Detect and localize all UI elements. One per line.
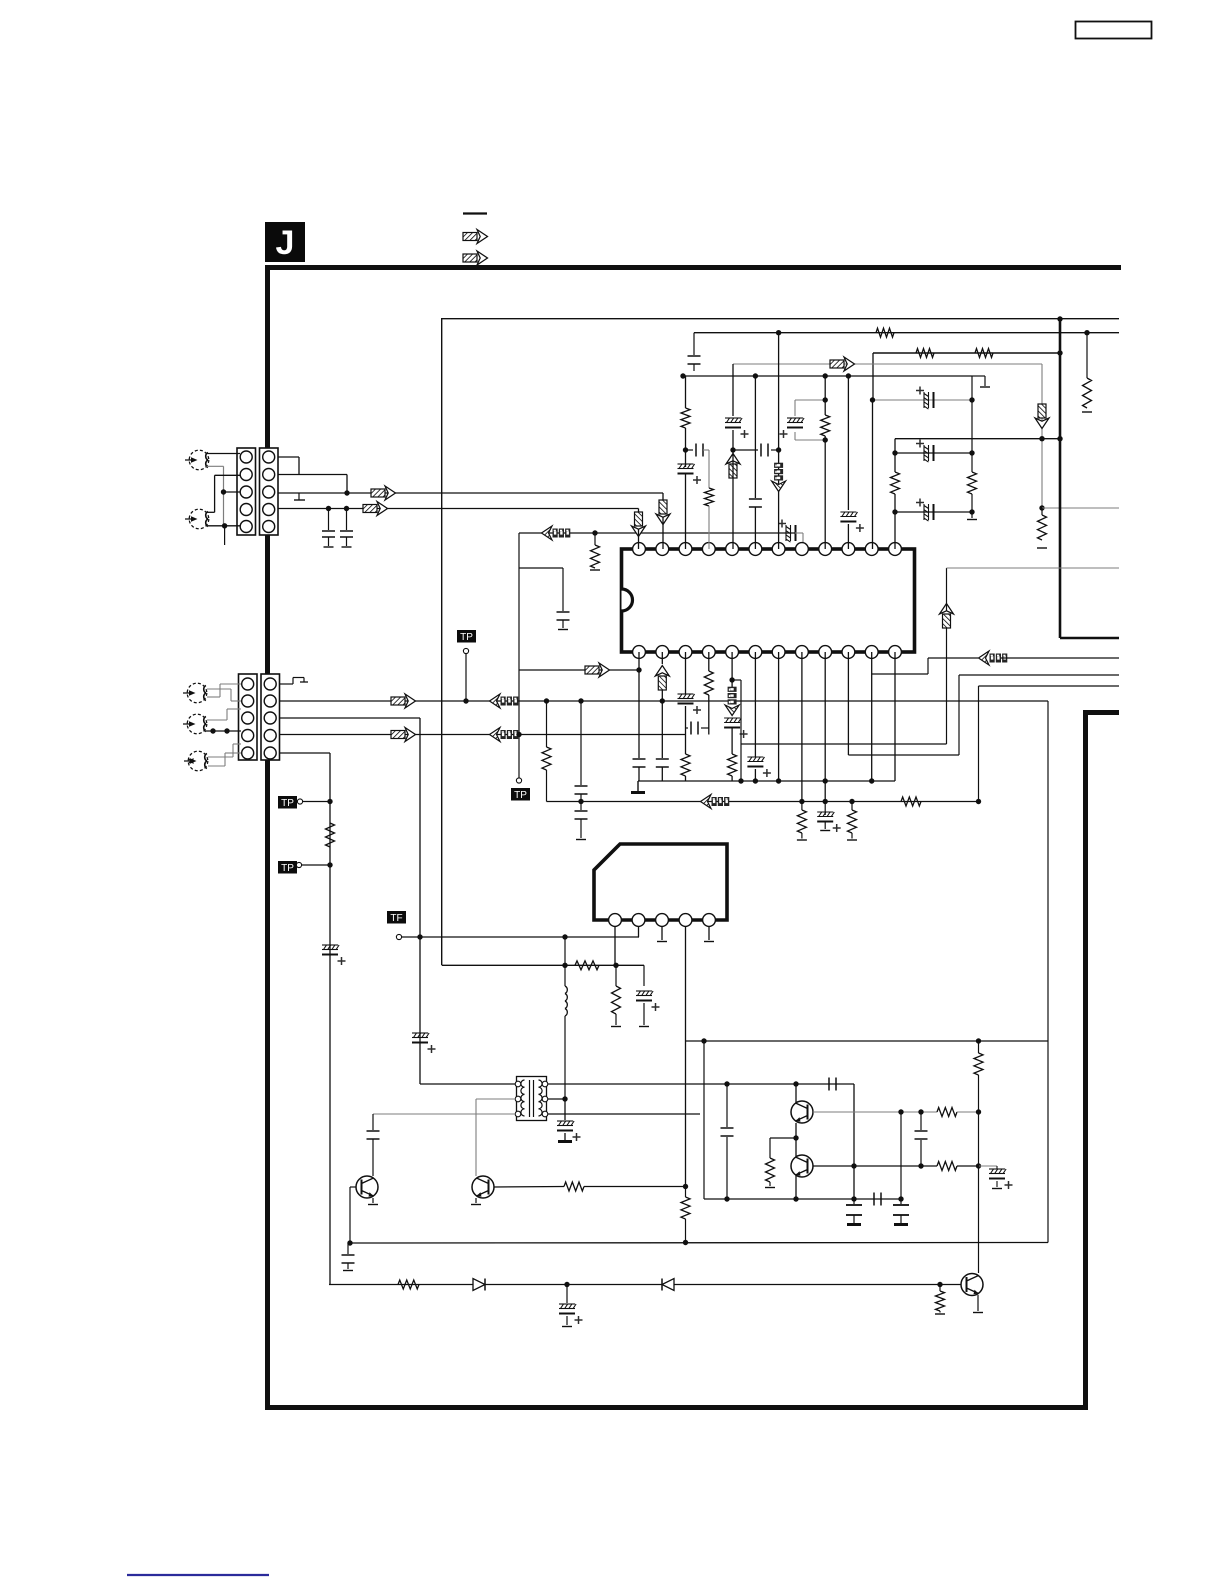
capacitor C2 xyxy=(340,530,353,532)
wire R26 to rail xyxy=(584,1186,686,1188)
svg-text:TP: TP xyxy=(281,798,294,809)
wire x685 resistor lead xyxy=(685,1187,687,1198)
bus y1041 xyxy=(686,1040,1049,1042)
resistor R21 xyxy=(612,986,621,1014)
bus y966 xyxy=(442,964,644,966)
pin22 bottom chain xyxy=(847,652,849,755)
wire C5 to IC1 pin8 top xyxy=(795,532,803,534)
wire x901 link xyxy=(900,1112,902,1199)
IC U2 pin5 stub + tick xyxy=(708,926,710,940)
wire C38 tail xyxy=(566,1316,568,1325)
wire pin12 resistor lead xyxy=(894,453,896,472)
junction TP1/bus SIG1 xyxy=(463,698,468,703)
wire R2 top lead xyxy=(594,533,596,545)
wire R9 to pin4 xyxy=(708,506,710,549)
wire C23 to bus GND xyxy=(754,769,756,781)
test point TP5 terminal xyxy=(396,934,401,939)
resistor R4 open end xyxy=(1082,411,1092,413)
capacitor C1 xyxy=(322,530,335,532)
pin17 bottom chain xyxy=(731,652,733,691)
bus y508 right (gray) xyxy=(1042,507,1119,509)
wire Q3 base drop xyxy=(349,1187,351,1243)
junction bus y333/pin7 line xyxy=(776,330,781,335)
wire cap C1 lead xyxy=(328,509,330,531)
IC U2 pin3 stub + tick xyxy=(661,926,663,940)
wire R21 tail xyxy=(615,1014,617,1025)
capacitor C11 xyxy=(760,444,762,457)
wire Q2 out xyxy=(813,1165,937,1167)
wire R27 tail xyxy=(685,1219,687,1243)
wire L1 to transformer node xyxy=(564,1016,566,1099)
hatched arrow up x946 xyxy=(940,604,954,629)
bus y658 to edge xyxy=(1001,657,1119,659)
wire J2 sleeve stub down xyxy=(224,526,226,545)
wire C22 to R15 xyxy=(731,728,733,754)
pin7 top chain wire xyxy=(778,333,780,549)
resistor R22 open end xyxy=(765,1187,775,1189)
jack J4 leads xyxy=(207,719,227,721)
junction bus y376/pin6 xyxy=(753,373,758,378)
wire T1 pin1 right xyxy=(548,1083,854,1085)
signal ref arrow 300 on bus AUX xyxy=(542,526,571,540)
wire x872 from bus y353 to pin11 xyxy=(872,353,874,400)
wire TP5 line xyxy=(402,936,639,938)
wire x565 below xyxy=(564,1099,566,1120)
resistor R15 (pin17) xyxy=(728,754,737,776)
ground bar x565 xyxy=(558,1140,572,1143)
junction x704/bus y1041 xyxy=(701,1038,706,1043)
link y728 cap xyxy=(686,727,689,729)
junction J2 sleeve node xyxy=(222,523,227,528)
resistor R7 xyxy=(1038,515,1047,540)
resistor R24 xyxy=(937,1162,957,1171)
junction cap C2 top xyxy=(344,506,349,511)
power rail x1060 (bold) xyxy=(1059,319,1062,638)
wire TP2 stub xyxy=(303,801,330,803)
hatched arrow down to pin2 xyxy=(656,500,670,525)
gray link y400 xyxy=(873,399,973,401)
wire R29 tail xyxy=(939,1311,941,1313)
junction bus GND/pin23 xyxy=(869,778,874,783)
junction bus y376/pin9 xyxy=(823,373,828,378)
wire x972 branch xyxy=(971,376,973,472)
resistor R20 on bus y966 xyxy=(575,961,599,970)
junction cap C1 top xyxy=(326,506,331,511)
pin21 bottom chain xyxy=(824,652,826,802)
wire R14 tail xyxy=(708,695,710,735)
junction y1166/x978 xyxy=(976,1163,981,1168)
hatched arrow on bus SIG1 xyxy=(391,694,416,708)
wire C36 tail xyxy=(900,1215,902,1223)
junction pin17 y680 xyxy=(729,677,734,682)
junction pin9/loop top xyxy=(823,397,828,402)
junction bus y801/C24 xyxy=(823,799,828,804)
wire R15 to bus GND xyxy=(731,776,733,781)
wire C19 to bus GND xyxy=(661,767,663,781)
wire x959 riser xyxy=(958,675,960,755)
wire C31 tail xyxy=(996,1181,998,1187)
bus y1285 xyxy=(329,1284,961,1286)
wire T1 pin3 left (gray) xyxy=(373,1113,515,1115)
wire x978 long rail xyxy=(978,686,980,802)
wire R29 riser xyxy=(939,1285,941,1292)
junction pin14/bus SIG1 xyxy=(660,698,665,703)
junction y966/coil xyxy=(562,963,567,968)
connector CN-B housing right xyxy=(260,448,279,535)
pin15 bottom chain xyxy=(685,652,687,694)
transistor Q2 xyxy=(791,1155,813,1177)
wire x727 chain xyxy=(726,1084,728,1127)
wire R10 to pin9 xyxy=(824,436,826,549)
resistor R4 xyxy=(1083,378,1092,408)
transformer T1 body xyxy=(517,1077,547,1121)
wire x581 caps chain xyxy=(580,701,582,785)
wire y568 stub xyxy=(519,567,563,569)
wire pin5 node to pin xyxy=(732,450,734,549)
wire x978 low xyxy=(978,1166,980,1273)
capacitor C36 xyxy=(893,1204,909,1206)
capacitor C31 electrolytic xyxy=(989,1168,1005,1170)
shield box top stub xyxy=(1083,710,1119,715)
resistor R22 xyxy=(766,1158,775,1182)
wire x565 link from TP5 line xyxy=(564,937,566,965)
resistor R11 (pin12) xyxy=(891,472,900,494)
test point TP1 box xyxy=(457,630,476,643)
wire R17 tail xyxy=(851,833,853,839)
wire R25 tail xyxy=(978,1075,980,1112)
wire x420 vertical xyxy=(419,718,421,1084)
wire C27 tail xyxy=(643,1003,645,1025)
bus y438 xyxy=(895,438,1060,440)
hatched arrow down x1042 xyxy=(1035,404,1049,429)
wire Q1 emitter branch xyxy=(770,1137,796,1139)
junction y1166/x854 xyxy=(851,1163,856,1168)
test point TP3 terminal xyxy=(296,862,301,867)
wire R16 top lead xyxy=(801,802,803,811)
resistor R6 on bus y353 xyxy=(975,349,993,358)
wire R22 riser xyxy=(769,1138,771,1158)
board outline left xyxy=(265,265,270,1410)
signal ref arrow 200 on bus SIG2 xyxy=(490,728,519,742)
resistor R1 (TP divider) xyxy=(326,823,335,847)
wire Q5 emitter xyxy=(977,1295,979,1311)
wire R17 top lead xyxy=(851,802,853,811)
capacitor C23 electrolytic xyxy=(747,756,763,758)
junction x1060/inner top xyxy=(1057,316,1062,321)
junction pin7 node y450 xyxy=(776,447,781,452)
board outline bottom xyxy=(265,1405,1088,1410)
hatched arrow on bus SIG2 xyxy=(391,728,416,742)
capacitor C12 xyxy=(749,498,762,500)
junction pin5 node y450 xyxy=(730,447,735,452)
wire C24 leads xyxy=(824,802,826,816)
jack J3 (video in) xyxy=(187,683,207,703)
wire cap C7 lead xyxy=(693,333,695,355)
capacitor C21 xyxy=(690,722,692,735)
wire Q1 collector riser xyxy=(795,1084,797,1103)
resistor R19 xyxy=(542,747,551,770)
connector CN-C pins xyxy=(242,678,254,690)
bus y675 to edge xyxy=(959,674,1119,676)
wire C9 to gray drop (pin4 top) xyxy=(703,449,709,451)
wire R7 top lead xyxy=(1041,508,1043,515)
wire C36 riser xyxy=(900,1199,902,1204)
wire sleeve node to CN pin3 xyxy=(224,491,241,493)
capacitor C4 electrolytic xyxy=(412,1032,428,1034)
junction pin21/bus GND xyxy=(823,778,828,783)
junction bus y1199/x854 xyxy=(851,1196,856,1201)
bus SIG2 (pin4) xyxy=(279,734,686,736)
connector CN-A pins left column xyxy=(240,451,252,463)
wire R20/pin1 junction riser xyxy=(615,965,617,986)
wire C10 to node xyxy=(732,430,734,450)
wire C20 to R13 xyxy=(685,706,687,754)
transistor Q5 xyxy=(961,1274,983,1296)
jack J5 leads xyxy=(208,756,233,758)
hatched arrow up pin5 xyxy=(726,454,740,479)
test point TP1 terminal xyxy=(463,648,468,653)
resistor R9 (gray, pin4 top) xyxy=(705,488,714,506)
diode D2 xyxy=(662,1279,674,1291)
capacitor C14 electrolytic xyxy=(840,511,856,513)
bus AUX (y533) xyxy=(519,532,795,534)
wire C18 to bus GND xyxy=(638,767,640,781)
bus GND (y781) xyxy=(638,780,895,782)
resistor R16 open end xyxy=(797,839,807,841)
signal ref arrow 200 on bus y801 xyxy=(701,795,730,809)
wire x921 link xyxy=(920,1112,922,1130)
junction jack J4 lead a xyxy=(210,728,215,733)
wire T1 pin2 right xyxy=(548,1098,565,1100)
junction y966/R20 xyxy=(613,963,618,968)
wire R8 to node xyxy=(685,428,687,450)
wire bus R-in xyxy=(278,508,639,510)
wire cap C9 left lead xyxy=(686,449,694,451)
capacitor C24 electrolytic xyxy=(817,811,833,813)
resistor R29 xyxy=(936,1291,945,1311)
inner block left edge xyxy=(441,318,443,965)
Q5 emitter open end xyxy=(973,1312,983,1314)
feedback loop gray box left leg xyxy=(794,400,796,416)
junction bus y801/R17 xyxy=(849,799,854,804)
wire T1 pin2 left (gray) xyxy=(476,1098,515,1100)
resistor R29 open end xyxy=(935,1313,945,1315)
junction bus AUX/R2 xyxy=(592,530,597,535)
capacitor C19 xyxy=(656,758,669,760)
wire x928 riser xyxy=(927,658,929,674)
wire x420 to T1 pin1 xyxy=(420,1083,515,1085)
pin14 bottom chain xyxy=(661,652,663,664)
jack J2 (audio in R) xyxy=(189,509,209,529)
connector CN-B pins right column xyxy=(263,451,275,463)
jack J3 leads xyxy=(207,688,231,690)
wire bus L-in drop to pin2 xyxy=(662,493,664,500)
junction x972/y400 xyxy=(969,397,974,402)
wire x978 mid xyxy=(978,1112,980,1166)
capacitor C38 open end xyxy=(562,1326,572,1328)
jack J1 tip lead xyxy=(206,453,241,455)
junction TP5 line/x565 xyxy=(562,934,567,939)
wire C35 riser xyxy=(853,1199,855,1204)
wire R19 to bus y801 xyxy=(546,770,548,802)
junction x972/y453 xyxy=(969,450,974,455)
wire x946 riser xyxy=(946,628,948,744)
wire y376 right stub + tick xyxy=(972,375,985,377)
capacitor C6 xyxy=(557,611,570,613)
resistor R10 (pin9 top) xyxy=(821,415,830,436)
junction y1166/x921 xyxy=(918,1163,923,1168)
transformer T1 core xyxy=(529,1080,531,1117)
wire x704 riser xyxy=(703,1041,705,1199)
jack J2 tip lead bend xyxy=(215,474,240,476)
connector CN-A housing left xyxy=(237,448,256,535)
resistor R5 on bus y353 xyxy=(916,349,934,358)
resistor R2 xyxy=(591,545,600,568)
wire x850 from pin22 xyxy=(848,754,850,756)
bus y801 xyxy=(547,801,979,803)
resistor R28 on bus y1285 xyxy=(398,1280,419,1289)
junction Q1 emitter node xyxy=(793,1135,798,1140)
bus pin3 to bend xyxy=(279,717,420,719)
wire R24 to rail xyxy=(957,1165,979,1167)
wire cap C2 lead xyxy=(346,509,348,531)
right-side link y744 xyxy=(741,743,947,745)
resistor R17 xyxy=(848,810,857,833)
junction bus y670/pin13 xyxy=(636,667,641,672)
legend plain wire sample xyxy=(463,212,487,214)
bus y1243 xyxy=(350,1242,1048,1245)
wire R22 tail xyxy=(769,1182,771,1186)
connector CN-D housing right xyxy=(261,674,280,760)
wire CN-B pin2 to bend xyxy=(278,474,347,476)
junction TP3 node xyxy=(327,862,332,867)
hatched arrow on bus L-in xyxy=(371,486,396,500)
signal ref arrow 200 down pin7 xyxy=(772,463,786,492)
wire Q4 base riser (gray) xyxy=(475,1099,477,1176)
wire y1084 corner down x854 xyxy=(853,1084,855,1199)
test point TP2 terminal xyxy=(297,799,302,804)
resistor R8 (pin3 top) xyxy=(681,408,690,428)
wire x972 tail xyxy=(971,512,973,518)
capacitor C24 open end xyxy=(820,830,830,832)
junction y1112/x978 xyxy=(976,1109,981,1114)
transformer T1 primary winding xyxy=(521,1080,525,1087)
junction pin12 y453 xyxy=(892,450,897,455)
capacitor C29 electrolytic xyxy=(557,1120,573,1122)
signal ref arrow 200 bus y658 xyxy=(979,651,1008,665)
IC U1 top pins 1-12 xyxy=(633,543,646,556)
wire C25-C26 link xyxy=(580,794,582,810)
wire y674 link xyxy=(872,673,928,675)
junction x872/y400 xyxy=(870,397,875,402)
shield box left edge xyxy=(1083,710,1088,1410)
resistor R17 open end xyxy=(847,839,857,841)
wire Q3 base stub xyxy=(350,1186,356,1188)
capacitor C27 electrolytic xyxy=(636,990,652,992)
junction pin12 y512 xyxy=(892,509,897,514)
power rail corner to edge (bold) xyxy=(1060,637,1119,640)
pin24 bottom chain xyxy=(894,652,896,781)
stub open end y386 xyxy=(980,386,990,388)
ground bar bus GND xyxy=(631,791,645,794)
junction bus GND/pin19 xyxy=(776,778,781,783)
U2 pin3 open end xyxy=(657,941,667,943)
transformer T1 terminals xyxy=(515,1081,521,1087)
junction y1186/x685 xyxy=(683,1184,688,1189)
junction bus SIG1/x581 xyxy=(578,698,583,703)
junction bus GND/pin18 xyxy=(753,778,758,783)
wire R23 to rail (gray) xyxy=(957,1111,979,1113)
junction bus y1199/Q1 emitter xyxy=(793,1196,798,1201)
legend hatched arrow 1 xyxy=(463,230,488,244)
svg-text:TF: TF xyxy=(390,913,402,924)
op-amp / jungle IC U1 body xyxy=(622,549,915,652)
capacitor C3 electrolytic xyxy=(322,944,338,946)
pin3 top chain: wire xyxy=(685,376,687,408)
U2 pin5 open end xyxy=(704,941,714,943)
legend hatched arrow 2 xyxy=(463,251,488,265)
capacitor C17 electrolytic xyxy=(923,504,925,520)
capacitor C16 electrolytic xyxy=(923,445,925,461)
hatched arrow on bus y364 xyxy=(830,357,855,371)
pin23 bottom chain xyxy=(871,652,873,781)
junction bus SIG2/test line xyxy=(516,732,521,737)
wire pin17 branch to x741 xyxy=(732,679,741,681)
junction bus y1285/R29 xyxy=(937,1282,942,1287)
test point TP3 box xyxy=(278,861,297,874)
bus y670 xyxy=(519,669,639,671)
wire cap C1 bottom lead xyxy=(328,537,330,546)
junction bus y1041/x978 xyxy=(976,1038,981,1043)
bus SIG1 chains: wire R19 top lead xyxy=(546,701,548,747)
bus y658 with arrow xyxy=(928,657,978,659)
capacitor C28 xyxy=(367,1130,380,1132)
bus GND left stub xyxy=(637,781,639,791)
page footer rule (blue) xyxy=(127,1574,269,1576)
junction y1112/x901 xyxy=(898,1109,903,1114)
capacitor C18 xyxy=(633,758,646,760)
hatched arrow on bus y670 xyxy=(585,663,610,677)
junction x972/y512 xyxy=(969,509,974,514)
wire arrow to pin1 xyxy=(638,529,640,549)
signal ref arrow 200 on bus SIG1 xyxy=(490,694,519,708)
capacitor C6 open end xyxy=(558,629,568,631)
wire y966 corner down xyxy=(643,965,645,986)
ground bar C35 xyxy=(847,1223,861,1226)
IC U2 body (chamfered) xyxy=(594,844,727,920)
pin19 bottom chain xyxy=(778,652,780,781)
x972 open end xyxy=(967,519,977,521)
Q3 emitter open end xyxy=(368,1204,378,1206)
junction bus y333/R4 xyxy=(1084,330,1089,335)
bus y1199 xyxy=(704,1198,902,1200)
svg-text:TP: TP xyxy=(460,632,473,643)
junction bus y1199/x901 xyxy=(898,1196,903,1201)
capacitor C34 xyxy=(873,1193,875,1206)
wire TP1 to bus SIG1 xyxy=(465,654,467,701)
junction bus y801/x581 xyxy=(578,799,583,804)
wire x946 corner to edge (gray) xyxy=(947,567,1120,569)
capacitor C26 xyxy=(575,810,588,812)
wire cap C11 leads xyxy=(733,449,758,451)
wire cap C2 bottom lead xyxy=(346,537,348,546)
test point TP2 box xyxy=(278,796,297,809)
wire C38 riser xyxy=(566,1285,568,1304)
wire bus L-in xyxy=(278,492,663,494)
wire R13 to bus GND xyxy=(685,776,687,781)
IC U2 pins xyxy=(609,914,622,927)
wire x1042 vertical (gray) xyxy=(1041,364,1043,508)
